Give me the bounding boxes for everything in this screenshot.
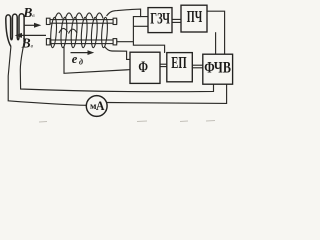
svg-text:B: B — [22, 5, 32, 20]
svg-text:д: д — [79, 58, 83, 67]
svg-text:А: А — [96, 99, 105, 113]
svg-text:ЕП: ЕП — [171, 53, 186, 72]
svg-text:ФЧВ: ФЧВ — [204, 59, 231, 76]
svg-text:e: e — [72, 52, 78, 66]
svg-text:ГЗЧ: ГЗЧ — [150, 10, 170, 27]
svg-text:Ф: Ф — [138, 59, 148, 76]
svg-text:B: B — [21, 35, 31, 50]
svg-text:ПЧ: ПЧ — [187, 7, 203, 26]
